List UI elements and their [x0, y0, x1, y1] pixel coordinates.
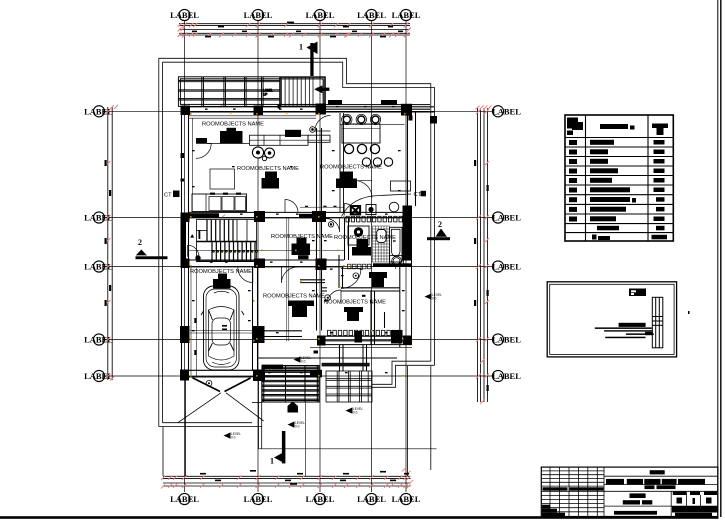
svg-text:LABEL: LABEL	[392, 494, 421, 504]
svg-text:0.0: 0.0	[301, 360, 306, 364]
svg-text:LABEL: LABEL	[84, 262, 113, 272]
svg-text:LABEL: LABEL	[492, 213, 521, 223]
svg-text:ROOMOBJECTS NAME: ROOMOBJECTS NAME	[263, 294, 325, 300]
svg-text:LABEL: LABEL	[492, 371, 521, 381]
svg-text:LABEL: LABEL	[84, 213, 113, 223]
svg-text:LABEL: LABEL	[492, 335, 521, 345]
svg-text:2: 2	[438, 220, 442, 229]
svg-text:ROOMOBJECTS NAME: ROOMOBJECTS NAME	[320, 165, 382, 171]
svg-text:1: 1	[270, 457, 274, 466]
svg-text:2: 2	[138, 238, 142, 247]
svg-text:ROOMOBJECTS NAME: ROOMOBJECTS NAME	[334, 235, 396, 241]
svg-text:LABEL: LABEL	[244, 10, 273, 20]
svg-text:ROOMOBJECTS NAME: ROOMOBJECTS NAME	[324, 300, 386, 306]
svg-text:CT: CT	[414, 192, 422, 198]
svg-text:CT: CT	[164, 193, 172, 199]
svg-text:LABEL: LABEL	[492, 106, 521, 116]
svg-text:ROOMOBJECTS NAME: ROOMOBJECTS NAME	[237, 166, 299, 172]
svg-text:LABEL: LABEL	[306, 10, 335, 20]
svg-text:ROOMOBJECTS NAME: ROOMOBJECTS NAME	[190, 269, 252, 275]
svg-text:LABEL: LABEL	[492, 262, 521, 272]
svg-text:LABEL: LABEL	[170, 494, 199, 504]
svg-text:LABEL: LABEL	[84, 335, 113, 345]
svg-text:LABEL: LABEL	[392, 10, 421, 20]
svg-text:ROOMOBJECTS NAME: ROOMOBJECTS NAME	[202, 122, 264, 128]
svg-text:LABEL: LABEL	[306, 494, 335, 504]
svg-text:UP: UP	[263, 93, 267, 97]
svg-text:LABEL: LABEL	[170, 10, 199, 20]
svg-text:LABEL: LABEL	[357, 10, 386, 20]
svg-text:LABEL: LABEL	[84, 371, 113, 381]
svg-text:LABEL: LABEL	[357, 494, 386, 504]
svg-text:ROOMOBJECTS NAME: ROOMOBJECTS NAME	[271, 234, 333, 240]
svg-text:1: 1	[299, 43, 303, 52]
svg-text:LABEL: LABEL	[244, 494, 273, 504]
